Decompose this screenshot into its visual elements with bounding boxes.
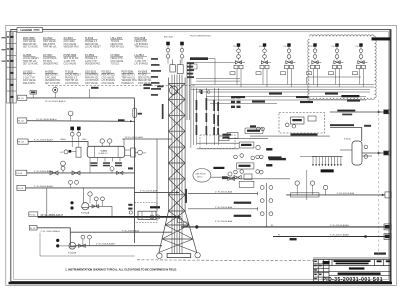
wire line L1 xyxy=(27,97,135,99)
svg-text:16"-FL-35001-A3A-H: 16"-FL-35001-A3A-H xyxy=(45,100,66,103)
svg-text:PURGE 0.5: PURGE 0.5 xyxy=(122,83,135,85)
drop to pump1 xyxy=(82,188,84,203)
svg-text:SET 10 IN WC: SET 10 IN WC xyxy=(23,47,38,49)
svg-text:TRIP HH LVL: TRIP HH LVL xyxy=(135,47,149,49)
svg-text:LOCAL RESET: LOCAL RESET xyxy=(65,74,81,77)
svg-text:4"-FL-35016-A3A: 4"-FL-35016-A3A xyxy=(215,220,232,223)
cluster interconnect line xyxy=(307,76,361,78)
title block texts xyxy=(323,260,390,275)
collection bus lines xyxy=(191,85,374,104)
pump P-3502A xyxy=(82,203,89,210)
svg-text:24"-FL-35000-A3A-H: 24"-FL-35000-A3A-H xyxy=(41,214,64,217)
riser inline boxes xyxy=(178,219,183,223)
svg-text:TRIP HH LVL: TRIP HH LVL xyxy=(122,77,136,79)
line y194.9 to right edge xyxy=(286,194,385,196)
svg-text:TO DCS: TO DCS xyxy=(43,61,52,63)
svg-text:1-1HC TYP: 1-1HC TYP xyxy=(135,61,147,63)
svg-text:F-3504: F-3504 xyxy=(344,139,351,141)
collector dark ticks xyxy=(128,204,132,206)
svg-text:SET 10 IN WC: SET 10 IN WC xyxy=(64,58,79,60)
cloud bottom dark label xyxy=(341,95,359,97)
svg-text:3"-FL-35005-A3A-H: 3"-FL-35005-A3A-H xyxy=(34,185,54,188)
tower left label stack xyxy=(151,58,158,60)
instrument circle left of drum bottom xyxy=(61,161,66,166)
svg-text:1-1HC TYP: 1-1HC TYP xyxy=(23,77,35,79)
svg-text:FL 07: FL 07 xyxy=(30,228,36,230)
svg-text:SET 10 IN WC: SET 10 IN WC xyxy=(23,64,38,66)
label grid right of riser xyxy=(231,96,241,108)
svg-text:TO DCS: TO DCS xyxy=(138,75,147,77)
svg-text:FIELD MTD: FIELD MTD xyxy=(111,44,123,46)
vertical filter vessel xyxy=(352,141,362,165)
svg-text:VENDOR PKG: VENDOR PKG xyxy=(85,64,101,66)
svg-text:16"-FL-35020-A3A: 16"-FL-35020-A3A xyxy=(125,136,144,139)
ellipse balloon right of tower xyxy=(193,169,211,183)
svg-text:CSO VALVE: CSO VALVE xyxy=(43,40,56,43)
svg-text:PER API 521: PER API 521 xyxy=(85,76,99,79)
drum V-3501 xyxy=(87,146,125,157)
svg-text:10"-FL-35002-A3A-H: 10"-FL-35002-A3A-H xyxy=(36,118,57,121)
svg-text:VENDOR PKG: VENDOR PKG xyxy=(122,80,138,82)
riser-to-skid connecting lines xyxy=(197,142,239,144)
seal drum on header xyxy=(138,211,156,219)
scattered fittings mid right xyxy=(234,176,241,180)
pilot annotation dark label xyxy=(190,57,208,60)
flag L2 xyxy=(18,118,27,123)
svg-text:CSO VALVE: CSO VALVE xyxy=(64,43,77,46)
valves right of pump1 xyxy=(94,197,98,201)
legend header box xyxy=(17,28,43,33)
sheet inner border frame xyxy=(11,30,391,282)
dashed control box xyxy=(279,113,325,134)
tower inlet arrow line y192 xyxy=(135,191,180,193)
circles with stems above line y194.9 xyxy=(295,181,299,185)
svg-text:LSLL: LSLL xyxy=(82,139,88,141)
main flare header flag xyxy=(29,212,38,217)
second inner margin line xyxy=(14,32,389,279)
instrument on L2 xyxy=(68,111,73,116)
svg-text:L/O BYPASS: L/O BYPASS xyxy=(85,79,99,82)
svg-text:CSO VALVE: CSO VALVE xyxy=(102,82,115,85)
svg-text:PER API 521: PER API 521 xyxy=(138,79,152,82)
instruments near header at tower xyxy=(150,215,154,219)
flag L6 xyxy=(29,225,37,230)
svg-text:6"-FL-35010-A3A: 6"-FL-35010-A3A xyxy=(140,189,157,192)
extra fittings on L4 toward collector xyxy=(110,167,114,171)
svg-text:TO DCS: TO DCS xyxy=(111,41,120,43)
long line y226.9 to right edge xyxy=(181,226,385,228)
tower top instrument column x=168.0 xyxy=(166,42,170,46)
main vertical collector line xyxy=(134,98,136,243)
flag L5 xyxy=(17,185,26,190)
svg-text:3"-FG-35013-A3A: 3"-FG-35013-A3A xyxy=(337,192,355,195)
svg-text:CSO VALVE: CSO VALVE xyxy=(23,79,36,82)
svg-text:CSO VALVE: CSO VALVE xyxy=(64,63,77,66)
molecular seal xyxy=(169,86,177,94)
svg-text:2-PC 1600: 2-PC 1600 xyxy=(64,41,76,43)
svg-text:FIELD MTD: FIELD MTD xyxy=(23,83,35,85)
pump P-3502B xyxy=(69,242,76,249)
svg-text:PILOT IGNITION PKG: PILOT IGNITION PKG xyxy=(190,36,211,38)
svg-text:L/O BYPASS: L/O BYPASS xyxy=(135,43,149,46)
svg-text:FIELD MTD: FIELD MTD xyxy=(135,41,147,43)
vessel right circles xyxy=(364,145,368,149)
svg-text:V-3501: V-3501 xyxy=(101,151,108,153)
main flare header thick line xyxy=(38,216,181,218)
riser vertical pipes with vertical labels xyxy=(194,88,219,145)
svg-text:PER API 521: PER API 521 xyxy=(23,43,37,46)
border bottom thick line xyxy=(9,282,393,285)
flare tip assemblies xyxy=(170,65,176,72)
svg-text:PER API 521: PER API 521 xyxy=(111,46,125,49)
instrument on pump1 xyxy=(88,192,92,196)
upper bus stubs xyxy=(196,77,240,79)
equipment enclosure bottom-left xyxy=(40,233,135,256)
svg-text:L/O BYPASS: L/O BYPASS xyxy=(43,57,57,60)
svg-text:CSO VALVE: CSO VALVE xyxy=(23,40,36,43)
flag L1 inlet xyxy=(18,95,27,100)
revision cloud around right clusters xyxy=(308,35,376,101)
small dark blob near bottom line xyxy=(290,238,297,240)
labels left of tower mid xyxy=(144,84,152,86)
svg-text:CSO VALVE: CSO VALVE xyxy=(102,76,115,79)
drain pot marks left of pump2 xyxy=(56,239,59,242)
svg-text:FL 05: FL 05 xyxy=(18,188,24,190)
svg-text:3"-FL-35009-A3A: 3"-FL-35009-A3A xyxy=(122,229,139,232)
svg-text:2"-FL-35015-A3A: 2"-FL-35015-A3A xyxy=(215,206,232,209)
tower top instrument column x=182.0 xyxy=(180,42,184,46)
svg-text:SEE NOTE 1: SEE NOTE 1 xyxy=(122,75,136,77)
drum vapor line to stack xyxy=(122,138,172,140)
svg-text:TO DCS: TO DCS xyxy=(23,75,32,77)
lower skid line xyxy=(222,178,290,180)
inline filter on collector xyxy=(133,108,137,118)
svg-text:VENDOR PKG: VENDOR PKG xyxy=(43,64,59,66)
svg-text:DET-1: DET-1 xyxy=(197,176,204,178)
svg-text:FLARE KO: FLARE KO xyxy=(99,152,109,155)
right level bridle xyxy=(131,148,136,157)
short lines from riser to right with labels xyxy=(188,193,258,195)
tag box on L1 xyxy=(88,89,90,98)
svg-text:1. INSTRUMENTATION SHOWN IS TY: 1. INSTRUMENTATION SHOWN IS TYPICAL. ALL… xyxy=(65,267,177,271)
area class dark label top right xyxy=(372,37,391,40)
svg-text:LG: LG xyxy=(60,152,63,154)
svg-text:CSO VALVE: CSO VALVE xyxy=(85,82,98,85)
branch down from L5 xyxy=(46,188,48,217)
wire from pump2 right xyxy=(76,245,162,247)
flag L3 xyxy=(18,139,29,144)
svg-text:BSL-3541: BSL-3541 xyxy=(164,37,174,39)
dashed box near tower right xyxy=(200,135,235,149)
rev column marks xyxy=(314,261,321,280)
manifold comb xyxy=(312,156,343,158)
svg-text:1-1HC TYP: 1-1HC TYP xyxy=(64,61,76,63)
circles row upper skid xyxy=(234,155,238,159)
right border inner thick edge xyxy=(389,30,391,282)
svg-text:PURGE 0.5: PURGE 0.5 xyxy=(85,58,98,60)
dashed box around seal drum xyxy=(135,203,158,223)
long line y236.5 to right edge xyxy=(273,236,385,238)
label above seal box xyxy=(150,206,160,208)
wire line L2 xyxy=(27,120,135,123)
wire line L6 stepped xyxy=(37,228,77,246)
valve2 on L4 xyxy=(72,171,80,175)
svg-text:PID-35-20031-001 S01: PID-35-20031-001 S01 xyxy=(323,277,383,283)
extra riser pipe xyxy=(190,64,192,148)
wire line L4 xyxy=(27,172,135,174)
svg-text:TRIP HH LVL: TRIP HH LVL xyxy=(23,61,37,63)
svg-text:PER API 521: PER API 521 xyxy=(85,43,99,46)
label stack right of tower top xyxy=(187,62,194,78)
svg-text:2"-FL-35014-A3A: 2"-FL-35014-A3A xyxy=(215,191,232,194)
revision table top-left margin xyxy=(7,32,17,104)
svg-text:FIELD MTD: FIELD MTD xyxy=(43,44,55,46)
line to vessel y127.5 xyxy=(330,128,362,142)
flare stack lattice tower xyxy=(159,78,197,254)
svg-text:2-PC 1600: 2-PC 1600 xyxy=(45,77,57,79)
pilot gas skid lower xyxy=(237,163,254,169)
signal dashed line to bus xyxy=(48,84,196,86)
vessel outlet line to flag xyxy=(362,152,384,154)
svg-text:P-3502A: P-3502A xyxy=(81,211,90,214)
svg-text:L/O BYPASS: L/O BYPASS xyxy=(135,63,149,66)
battery limit dashed line xyxy=(137,260,313,261)
svg-text:FL 01: FL 01 xyxy=(18,98,24,100)
small box pair left xyxy=(227,133,238,139)
svg-text:LEGEND: LEGEND xyxy=(21,28,33,32)
faint dashed vertical near right border xyxy=(378,100,380,258)
wire line L3 into drum xyxy=(28,142,88,147)
svg-text:PURGE 0.5: PURGE 0.5 xyxy=(65,77,78,79)
tower footing circles xyxy=(157,253,162,258)
drum bottom nozzles & tag pairs xyxy=(89,158,91,162)
microtext row above title block xyxy=(313,257,390,258)
svg-text:1-1HC TYP: 1-1HC TYP xyxy=(85,61,97,63)
svg-text:6"-FL-35017-A3A-H: 6"-FL-35017-A3A-H xyxy=(330,233,350,236)
svg-text:L/O BYPASS: L/O BYPASS xyxy=(65,82,79,85)
valve on L4 xyxy=(50,171,58,175)
tower base line xyxy=(167,254,191,258)
svg-text:PER API 521: PER API 521 xyxy=(102,74,116,77)
svg-text:FIELD MTD: FIELD MTD xyxy=(111,58,123,60)
small circles on riser drops xyxy=(199,90,202,93)
tower-to-cluster connector lines xyxy=(191,62,235,64)
svg-text:SEE NOTE 1: SEE NOTE 1 xyxy=(45,75,59,77)
flag L4 xyxy=(16,170,27,175)
svg-text:P-3502B: P-3502B xyxy=(68,252,77,254)
vertical label left of tower xyxy=(162,104,164,119)
bus line tags xyxy=(232,93,360,104)
svg-text:TO DCS: TO DCS xyxy=(111,64,120,66)
svg-text:2"-FL-35007-A3A-H: 2"-FL-35007-A3A-H xyxy=(41,230,61,233)
svg-text:FL 06: FL 06 xyxy=(29,214,35,216)
svg-text:8"-FL-35003-A3A-H: 8"-FL-35003-A3A-H xyxy=(34,139,54,142)
left level bridle xyxy=(76,147,81,157)
svg-text:SET 10 IN WC: SET 10 IN WC xyxy=(45,83,60,85)
riser pipes inside tower xyxy=(172,62,190,254)
pipe left of tower xyxy=(156,139,158,211)
note above title block xyxy=(374,253,386,255)
svg-text:2"-FL-35008-A3A-H: 2"-FL-35008-A3A-H xyxy=(96,243,116,246)
line y232 to tower xyxy=(71,231,172,233)
svg-text:SEE NOTE 1: SEE NOTE 1 xyxy=(138,77,152,79)
drum top nozzles + instrument circles xyxy=(101,143,103,146)
pilot gas skid upper xyxy=(245,128,263,134)
svg-text:4"-FL-35016-A3A-H: 4"-FL-35016-A3A-H xyxy=(330,224,350,227)
svg-text:LIT: LIT xyxy=(143,153,147,155)
svg-text:TO DCS: TO DCS xyxy=(135,58,144,60)
drain pot marks left of pump1 xyxy=(70,201,73,204)
svg-text:L/O BYPASS: L/O BYPASS xyxy=(85,74,99,77)
svg-text:PURGE 0.5: PURGE 0.5 xyxy=(85,41,98,43)
svg-text:FL 02: FL 02 xyxy=(18,121,24,123)
svg-text:TRIP HH LVL: TRIP HH LVL xyxy=(43,47,57,49)
svg-text:SEE NOTE: SEE NOTE xyxy=(196,174,207,176)
svg-text:L/O BYPASS: L/O BYPASS xyxy=(102,79,116,82)
svg-text:CSO VALVE: CSO VALVE xyxy=(111,60,124,63)
svg-text:VENDOR PKG: VENDOR PKG xyxy=(64,47,80,49)
svg-text:FL 03: FL 03 xyxy=(18,142,24,144)
svg-text:VENDOR PKG: VENDOR PKG xyxy=(45,80,61,82)
far-left margin index marks xyxy=(2,37,6,62)
line to right edge y103.7 xyxy=(330,111,384,113)
svg-text:LOCAL RESET: LOCAL RESET xyxy=(85,46,101,49)
small vent flag on L1 xyxy=(30,91,37,95)
svg-text:TRIP HH LVL: TRIP HH LVL xyxy=(65,80,79,82)
wire line L5 xyxy=(26,187,135,189)
svg-text:LSHH: LSHH xyxy=(60,139,66,141)
svg-text:LOCAL RESET: LOCAL RESET xyxy=(23,57,39,60)
svg-text:FL 04: FL 04 xyxy=(17,173,23,175)
level transmitters squares above drum xyxy=(70,127,74,131)
instrument circles above L4 xyxy=(61,166,65,170)
valves right of pump2 xyxy=(79,244,86,247)
instrument TI on L1 xyxy=(53,87,58,92)
circle pairs column x266 xyxy=(260,186,264,190)
